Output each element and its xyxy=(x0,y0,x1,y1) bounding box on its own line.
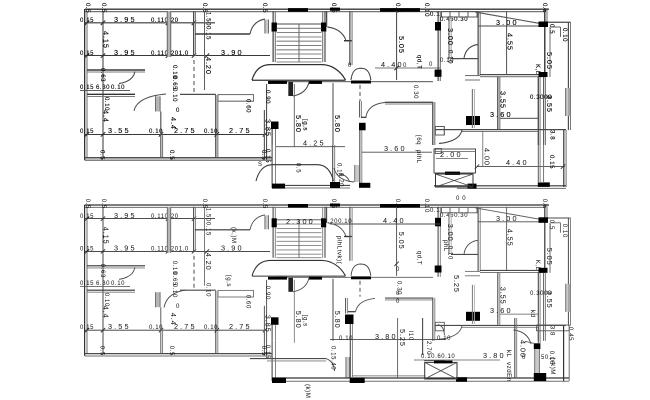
planA wall x544 lower xyxy=(543,145,545,183)
gray wall x473 xyxy=(471,89,473,128)
planB black window top xyxy=(534,343,541,349)
svg-text:0 0: 0 0 xyxy=(456,196,466,202)
planA dim line 4.40 xyxy=(477,166,565,168)
dim line row2 xyxy=(85,55,270,57)
planB window bar xyxy=(535,349,540,373)
svg-text:0.10: 0.10 xyxy=(440,58,454,64)
outer top wall xyxy=(85,8,549,10)
wall x479 xyxy=(477,11,479,76)
planA door arc y102 xyxy=(366,103,385,118)
planA door jamb hall xyxy=(355,165,360,182)
planB wall x346 xyxy=(345,298,347,314)
svg-text:50: 50 xyxy=(541,355,549,361)
svg-text:0: 0 xyxy=(429,62,433,68)
planB xbox diag2 xyxy=(425,362,457,379)
kitchen wall y94 xyxy=(87,93,135,95)
planB black bar above xbox xyxy=(434,361,452,364)
wall x433 mid xyxy=(432,102,434,145)
door arc y130 xyxy=(439,130,462,144)
planB dim line y360 xyxy=(414,359,500,361)
dim line x396 xyxy=(396,11,398,80)
planB wall y360 right xyxy=(424,360,445,362)
window sill y76 xyxy=(465,75,480,77)
planA door arc vest xyxy=(339,174,350,183)
svg-text:0.20: 0.20 xyxy=(338,173,344,187)
svg-text:4.40: 4.40 xyxy=(506,158,529,167)
svg-text:[g,s: [g,s xyxy=(225,275,232,287)
svg-text:0.10: 0.10 xyxy=(437,336,451,342)
black fixture x466 xyxy=(466,116,480,125)
planB wall x515 xyxy=(514,318,516,378)
svg-text:3.80: 3.80 xyxy=(375,332,398,341)
planB fixture arc xyxy=(438,325,445,335)
door arc kitchen xyxy=(119,72,135,84)
vestibule right wall upper xyxy=(332,83,334,145)
svg-text:3.60: 3.60 xyxy=(384,144,407,153)
svg-text:3.80: 3.80 xyxy=(483,351,506,360)
wall y82 xyxy=(277,81,433,83)
planA fixture rect b xyxy=(435,149,441,154)
wall black bar 3 xyxy=(351,81,371,84)
column stairwell left xyxy=(272,23,277,32)
svg-text:vzdEn: vzdEn xyxy=(505,362,512,382)
svg-text:plhL: plhL xyxy=(415,150,422,164)
planA right wall lower xyxy=(563,130,565,187)
svg-text:(vk)M: (vk)M xyxy=(549,357,556,375)
svg-text:S: S xyxy=(258,162,263,168)
planB dim line y224 xyxy=(330,223,440,225)
wall stub y40 xyxy=(344,40,352,42)
gray wall x157 xyxy=(156,96,161,111)
svg-text:2.70: 2.70 xyxy=(425,341,431,355)
wall x264 xyxy=(263,110,265,160)
svg-text:0.30: 0.30 xyxy=(412,85,418,99)
planA wall x360 upper xyxy=(359,101,361,118)
fixture rect a xyxy=(435,127,444,136)
dim line x204 xyxy=(204,11,206,90)
planA door arc big xyxy=(134,94,166,111)
svg-text:2.00: 2.00 xyxy=(440,150,463,159)
outer left wall xyxy=(84,9,86,160)
planA vestibule right wall xyxy=(332,145,334,185)
stairwell left wall xyxy=(272,11,274,62)
planA dim line 4.25 xyxy=(276,146,345,148)
wall y75 right xyxy=(480,74,545,76)
svg-text:5.25: 5.25 xyxy=(398,329,407,347)
planB column bottom c xyxy=(456,377,467,382)
svg-text:0.200.10: 0.200.10 xyxy=(324,219,352,225)
planB bottom wall xyxy=(272,377,569,379)
svg-text:plhLtvk)(: plhLtvk)( xyxy=(336,236,343,265)
svg-text:0.15.40: 0.15.40 xyxy=(330,346,336,370)
planB grid line x397 xyxy=(397,318,399,378)
door arc stair hall xyxy=(328,27,347,41)
svg-text:0: 0 xyxy=(396,299,400,305)
planB door arc big xyxy=(164,290,186,308)
dim line row1 xyxy=(85,22,215,24)
planB column x350 top xyxy=(345,315,354,325)
wall x450 xyxy=(448,17,450,58)
planA vestibule left wall xyxy=(271,145,273,188)
planB vestibule left wall xyxy=(271,341,273,381)
planA column x360 bottom xyxy=(359,183,370,188)
svg-text:0: 0 xyxy=(396,267,400,273)
svg-text:5.25: 5.25 xyxy=(452,275,461,293)
planB diag small xyxy=(525,341,534,343)
wall y34 closet xyxy=(195,33,250,35)
right wall upper xyxy=(544,8,546,77)
column x437 bottom xyxy=(435,70,442,77)
planA xbox diag1 xyxy=(436,174,474,187)
wall y102 xyxy=(385,101,433,103)
planB column bottom d xyxy=(534,373,546,381)
planB door stub y311 xyxy=(348,311,356,313)
top wall window bar 1 xyxy=(288,8,308,12)
svg-text:phL: phL xyxy=(442,240,449,252)
svg-text:4.40: 4.40 xyxy=(383,216,406,225)
planA column bottom mid xyxy=(468,184,477,189)
planB xbox diag1 xyxy=(425,362,457,379)
wall x439 xyxy=(437,11,439,81)
duct boxes xyxy=(442,12,478,18)
planB door jamb xyxy=(346,357,350,378)
planA bottom wall right xyxy=(434,185,566,187)
dim line y90 xyxy=(80,90,130,92)
bottom-left outer wall xyxy=(85,157,272,159)
planA xbox diag2 xyxy=(436,174,474,187)
kitchen wall y70 xyxy=(87,69,145,71)
door hat arc 2 xyxy=(351,68,371,80)
column top right xyxy=(539,22,549,28)
planA column vest bottom right xyxy=(330,182,340,188)
stairwell right wall xyxy=(322,11,324,62)
column stairwell right xyxy=(321,23,326,32)
balcony right wall xyxy=(567,22,569,130)
wall y58 bath xyxy=(451,58,478,60)
planA shaft xbox xyxy=(436,174,474,187)
wall y129 right xyxy=(435,129,566,131)
dim line x266 xyxy=(266,84,268,160)
dim extension x294 xyxy=(293,84,295,147)
column vestibule left xyxy=(271,122,279,130)
dashed wall x194 xyxy=(193,60,195,95)
planB column bottom b xyxy=(350,378,365,383)
svg-text:0: 0 xyxy=(348,63,352,69)
planA vestibule bottom wall xyxy=(272,184,350,186)
stair treads xyxy=(277,28,322,62)
planA column x360 top xyxy=(359,123,366,131)
svg-text:0.30: 0.30 xyxy=(396,281,402,295)
planB thin line y376 xyxy=(352,375,426,377)
canopy base line xyxy=(252,79,346,81)
entrance canopy arc xyxy=(252,65,346,80)
dim line 3.00 bedroom xyxy=(478,25,540,27)
planA balcony box xyxy=(434,149,476,173)
door jamb x266 xyxy=(265,20,269,34)
wall x216 xyxy=(215,95,217,158)
stair center line xyxy=(298,24,300,62)
svg-text:4.00: 4.00 xyxy=(483,148,492,166)
door arc closet xyxy=(250,19,265,34)
right wall inner xyxy=(549,27,551,77)
wall y94 corridor xyxy=(180,93,216,95)
planB door arc right xyxy=(514,330,532,344)
wall x194 xyxy=(193,11,195,56)
planB door arc y298 xyxy=(356,298,376,311)
top wall window bar 2 xyxy=(330,8,340,11)
column x437 top xyxy=(435,22,441,31)
wall x538 xyxy=(537,77,539,145)
planA door arc hall xyxy=(334,168,354,182)
planB wall y358 xyxy=(250,358,326,360)
planA column bottom right xyxy=(538,182,550,187)
dim line y68 xyxy=(375,67,440,69)
planA canopy exterior xyxy=(256,165,334,181)
svg-text:kL: kL xyxy=(505,350,512,358)
planB right wall lower xyxy=(563,326,565,381)
svg-text:0: 0 xyxy=(403,63,407,69)
wall x161 xyxy=(160,112,162,159)
balcony window xyxy=(566,88,569,116)
svg-text:4.40: 4.40 xyxy=(381,60,404,69)
planB wall x350 xyxy=(349,318,351,378)
stair landing line xyxy=(276,23,322,25)
svg-text:4.25: 4.25 xyxy=(303,139,326,148)
planA black bar balcony xyxy=(445,172,460,175)
dim line row y134 xyxy=(85,133,265,135)
svg-text:2.300: 2.300 xyxy=(286,217,315,226)
diagonal annotation xyxy=(475,12,540,24)
planB box top right xyxy=(537,325,570,331)
svg-text:(k)M: (k)M xyxy=(304,384,311,398)
planA dim line 3.60 xyxy=(362,151,432,153)
vestibule left wall upper xyxy=(271,129,273,145)
planA dim line 2.00 xyxy=(436,158,468,160)
kitchen counter xyxy=(218,95,254,102)
svg-text:0.10: 0.10 xyxy=(339,336,353,342)
planB door arc y360 xyxy=(326,359,335,371)
svg-text:[6q: [6q xyxy=(415,135,422,145)
dim line left column xyxy=(102,11,104,158)
planA dim line x482 xyxy=(482,131,484,166)
dashed line x360 xyxy=(359,85,361,101)
planB column bottom a xyxy=(272,378,286,383)
thick wall x169 xyxy=(167,11,170,57)
planA wall x538 lower xyxy=(537,145,539,183)
wall black bar 1 xyxy=(268,81,287,84)
door arc entry xyxy=(293,82,309,96)
svg-text:0.45: 0.45 xyxy=(567,327,573,341)
planA door stub y117 xyxy=(361,116,367,118)
column right mid xyxy=(539,72,548,77)
door leaf entry xyxy=(288,82,293,96)
dim line x506 xyxy=(506,11,508,75)
svg-text:kd: kd xyxy=(529,310,536,318)
wall black bar 2 xyxy=(309,81,322,84)
svg-text:0: 0 xyxy=(522,355,526,361)
wall x498 xyxy=(497,77,499,129)
svg-text:l10: l10 xyxy=(407,331,413,341)
svg-text:(k,)M: (k,)M xyxy=(230,227,237,244)
svg-text:0.10: 0.10 xyxy=(205,283,211,297)
wall x350 xyxy=(349,11,351,65)
door arc bath xyxy=(464,45,478,59)
planA wall x360 xyxy=(359,130,361,183)
planA column vest bottom left xyxy=(272,184,285,189)
balcony top edge xyxy=(548,21,571,23)
planB shaft xbox xyxy=(425,362,457,379)
svg-text:0.5: 0.5 xyxy=(295,163,301,173)
planB wall x423 xyxy=(422,318,424,355)
wall right of stairwell xyxy=(326,11,328,27)
dim line 3.60 right mid xyxy=(500,117,538,119)
top wall window bar 3 xyxy=(380,8,420,12)
wall x544 xyxy=(543,77,545,145)
planB wall x538 seg xyxy=(537,326,539,343)
planB dim line y340 xyxy=(330,339,445,341)
